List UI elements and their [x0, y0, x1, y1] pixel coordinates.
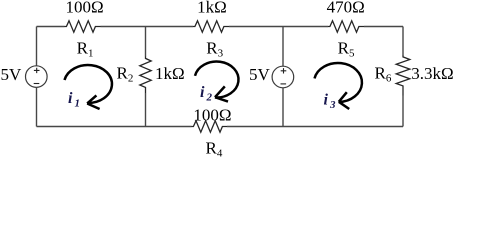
resistor R6: [396, 55, 410, 96]
resistor R3: [193, 21, 229, 32]
V1 minus sign: [34, 83, 40, 85]
resistor R4: [192, 121, 228, 132]
svg-text:R: R: [77, 38, 89, 57]
resistor R1: [65, 21, 101, 32]
svg-text:R: R: [375, 63, 387, 82]
wire right edge lower: [402, 96, 404, 127]
svg-text:2: 2: [206, 92, 213, 104]
svg-text:470Ω: 470Ω: [327, 0, 365, 17]
svg-text:i: i: [200, 84, 205, 101]
wire branch R2 lower: [145, 93, 147, 127]
svg-text:R: R: [206, 139, 218, 158]
V2 minus sign: [281, 83, 287, 85]
wire bottom-right segment: [227, 126, 403, 128]
svg-text:i: i: [324, 92, 329, 109]
wire top-left segment: [37, 26, 65, 28]
wire branch V2 upper: [282, 27, 284, 67]
svg-text:1kΩ: 1kΩ: [197, 0, 227, 17]
voltage source V2 5V: [272, 66, 294, 88]
wire top between R1 and R3: [101, 26, 194, 28]
V2 plus sign: [281, 68, 287, 73]
mesh current arrow i3: [315, 63, 362, 109]
resistor R2: [140, 57, 151, 94]
wire bottom-left segment: [37, 126, 192, 128]
svg-text:R: R: [206, 38, 218, 57]
wire branch R2 upper: [145, 27, 147, 57]
svg-text:R: R: [338, 38, 350, 57]
svg-text:5V: 5V: [1, 65, 23, 84]
svg-text:5V: 5V: [249, 65, 271, 84]
wire branch V2 lower: [282, 88, 284, 127]
svg-text:1: 1: [75, 98, 81, 110]
voltage source V1 5V: [26, 66, 48, 88]
svg-text:1kΩ: 1kΩ: [155, 64, 185, 83]
svg-text:2: 2: [128, 72, 133, 84]
svg-text:3: 3: [329, 99, 336, 111]
svg-text:6: 6: [386, 72, 392, 84]
wire right edge upper: [402, 27, 404, 56]
wire top between R3 and R5: [229, 26, 328, 28]
svg-text:5: 5: [349, 47, 355, 59]
mesh current arrow i2: [195, 62, 239, 102]
wire left edge upper: [36, 27, 38, 67]
svg-text:1: 1: [88, 47, 94, 59]
svg-text:100Ω: 100Ω: [66, 0, 104, 17]
svg-text:100Ω: 100Ω: [193, 105, 231, 124]
svg-text:3.3kΩ: 3.3kΩ: [411, 64, 453, 83]
mesh current arrow i1: [65, 65, 112, 109]
svg-text:3: 3: [218, 47, 224, 59]
svg-text:i: i: [68, 90, 73, 107]
resistor R5: [328, 21, 364, 32]
wire left edge lower: [36, 87, 38, 126]
wire top-right segment: [364, 26, 403, 28]
svg-text:R: R: [117, 63, 129, 82]
V1 plus sign: [34, 68, 40, 73]
svg-text:4: 4: [217, 148, 223, 160]
